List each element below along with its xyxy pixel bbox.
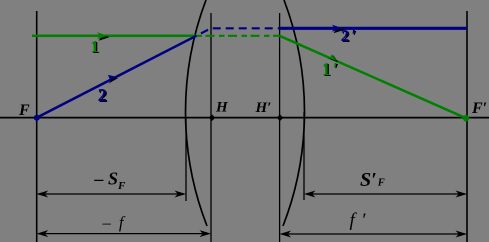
node F' (green dot) — [463, 115, 469, 121]
ray 2' arrowhead — [332, 25, 345, 33]
left focal vertical line — [36, 11, 38, 242]
node F (blue dot) — [34, 115, 40, 121]
ray 1 arrowhead — [97, 32, 110, 40]
svg-text:H′: H′ — [255, 100, 272, 116]
principal plane H' line — [279, 13, 281, 242]
ray 2 arrowhead — [107, 75, 118, 84]
ray 1' arrowhead — [326, 54, 338, 62]
ray 2 dashed continuation through H to H' — [197, 28, 280, 35]
ray 2' outgoing parallel (blue) — [280, 27, 467, 30]
extension line left vertex — [185, 118, 187, 201]
svg-text:1: 1 — [90, 37, 99, 56]
right focal vertical line — [466, 11, 468, 242]
svg-text:1′: 1′ — [322, 59, 338, 79]
dimension arrow -S_F — [37, 191, 186, 198]
svg-text:2: 2 — [98, 85, 107, 105]
svg-text:F′: F′ — [471, 100, 487, 117]
principal plane H line — [210, 13, 212, 242]
ray 1 dashed continuation to H' — [197, 35, 280, 37]
ray 2 from F (blue) — [37, 36, 197, 118]
optical axis — [0, 117, 489, 119]
dimension arrow f' — [280, 231, 467, 238]
lens right surface arc — [283, 0, 304, 226]
svg-text:– f: – f — [102, 213, 126, 232]
svg-text:H: H — [215, 100, 229, 116]
dimension arrow S'_F — [304, 191, 467, 198]
lens left surface arc — [186, 0, 207, 226]
ray 1 incoming (green) — [32, 35, 197, 38]
svg-text:F: F — [18, 102, 30, 119]
label 2' (blue) — [341, 26, 358, 46]
label 2 (blue) — [98, 85, 108, 106]
node H (black diamond) — [209, 114, 216, 121]
label 1' (green) — [322, 59, 339, 80]
svg-text:2′: 2′ — [341, 26, 356, 45]
extension line right vertex — [303, 112, 305, 200]
ray 1' refracted (green) — [280, 36, 466, 118]
node H' (black diamond) — [277, 114, 284, 121]
label 1 (green) — [90, 37, 100, 57]
dimension arrow -f — [37, 230, 211, 237]
